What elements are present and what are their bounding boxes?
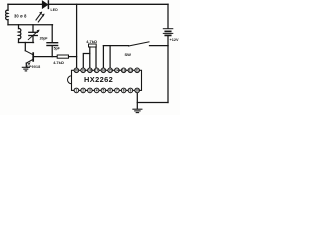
wire Vcc drop rail to pin18	[76, 4, 78, 70]
svg-text:3: 3	[89, 89, 91, 93]
wire base line	[34, 56, 57, 58]
svg-text:4: 4	[96, 89, 98, 93]
svg-text:15: 15	[108, 68, 112, 72]
svg-text:LED: LED	[51, 8, 59, 12]
wire pin9 to ground	[136, 93, 138, 109]
switch SW	[103, 42, 168, 46]
svg-text:SP9018: SP9018	[27, 65, 41, 69]
wire left edge upper	[7, 4, 9, 10]
svg-text:5pF: 5pF	[54, 46, 61, 50]
svg-text:17: 17	[95, 68, 99, 72]
wire collector stub	[24, 43, 26, 51]
wire left edge lower	[7, 20, 9, 25]
ground under Q1 emitter	[22, 67, 29, 71]
pin numbers top row	[75, 68, 139, 72]
wire bottom return	[137, 102, 168, 104]
wire top rail right segment	[49, 3, 168, 5]
capacitor C2 5pF	[47, 43, 58, 46]
battery BT1 12V	[163, 4, 173, 45]
IC pins top row	[74, 68, 139, 73]
svg-text:16: 16	[102, 68, 106, 72]
inductor L1 (antenna coil 30 ø 8)	[6, 10, 8, 20]
svg-text:+12V: +12V	[170, 38, 179, 42]
wire tank bottom bar	[19, 42, 34, 44]
svg-text:1: 1	[76, 89, 78, 93]
svg-text:30 ø 8: 30 ø 8	[14, 14, 27, 19]
svg-text:9: 9	[130, 89, 132, 93]
transistor Q1 SP9018	[25, 51, 33, 67]
svg-text:12: 12	[129, 68, 133, 72]
wire pin14 to switch line	[109, 46, 111, 71]
svg-text:SW: SW	[125, 52, 132, 57]
svg-text:13: 13	[122, 68, 126, 72]
wire 5pF drop from bar	[51, 25, 53, 42]
IC U1 HX2262 body	[72, 70, 142, 90]
IC notch	[68, 76, 72, 84]
svg-text:14: 14	[115, 68, 119, 72]
svg-text:18: 18	[88, 68, 92, 72]
wire pin17 jumper	[83, 54, 90, 71]
inductor L2 tank coil	[19, 25, 21, 43]
svg-text:8: 8	[123, 89, 125, 93]
LED D1	[36, 1, 48, 22]
svg-text:10: 10	[135, 89, 139, 93]
IC pins bottom row	[74, 88, 139, 93]
svg-text:4.7kΩ: 4.7kΩ	[53, 60, 64, 65]
wire C2 to base junction	[51, 46, 53, 57]
svg-text:6: 6	[109, 89, 111, 93]
wire R2 right leg	[95, 47, 97, 70]
svg-text:2: 2	[82, 89, 84, 93]
svg-text:HX2262: HX2262	[84, 75, 113, 84]
capacitor C1 variable 20pF	[28, 25, 39, 43]
resistor R2 4.7k osc	[89, 44, 97, 47]
svg-text:7: 7	[116, 89, 118, 93]
wire right edge battery to bottom	[167, 46, 169, 103]
svg-text:20pF: 20pF	[40, 36, 48, 40]
wire top rail left segment	[8, 3, 42, 5]
wire R2 left leg	[89, 47, 91, 70]
wire R1 to pin17 vertical	[69, 56, 77, 58]
svg-text:20: 20	[75, 68, 79, 72]
svg-text:19: 19	[81, 68, 85, 72]
wire pin15 to switch line	[102, 46, 104, 71]
svg-text:11: 11	[135, 68, 139, 72]
resistor R1 4.7k	[57, 55, 68, 58]
wire tank top bar	[8, 24, 53, 26]
ground under IC	[133, 109, 142, 112]
svg-text:4.7kΩ: 4.7kΩ	[86, 39, 97, 44]
svg-text:5: 5	[103, 89, 105, 93]
pin numbers bottom row	[76, 89, 140, 93]
